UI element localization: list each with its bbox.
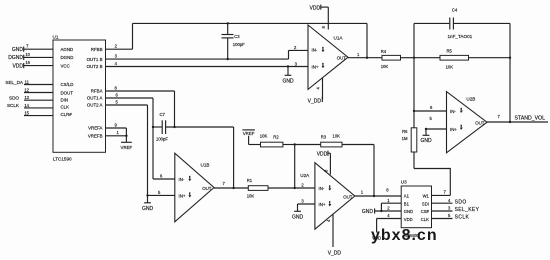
resistor R6 1M — [402, 128, 417, 169]
svg-text:VREF: VREF — [121, 145, 133, 150]
port DGND with wire pin 10 — [8, 52, 53, 61]
svg-text:R1: R1 — [247, 178, 253, 183]
wire U3 CLK pin 5 to SCLK — [432, 213, 470, 221]
svg-text:OUT1 B: OUT1 B — [87, 57, 103, 62]
ground at U2A IN+ — [292, 204, 304, 221]
svg-text:U3: U3 — [401, 180, 407, 185]
svg-text:IN+: IN+ — [312, 64, 319, 69]
svg-text:VREFA: VREFA — [88, 126, 102, 131]
wire U2B feedback right leg — [509, 23, 511, 123]
svg-text:11: 11 — [25, 80, 30, 85]
svg-text:R3: R3 — [321, 135, 327, 140]
op-amp U1B — [158, 153, 226, 222]
svg-text:OUT: OUT — [343, 195, 353, 200]
port SEL_DA with wire pin 11 — [5, 80, 53, 85]
svg-text:VCC: VCC — [61, 63, 70, 68]
port GND with wire pin 7 — [12, 44, 53, 53]
power V_DD at U2A pin 4 — [326, 215, 341, 257]
svg-text:SEL_DA: SEL_DA — [5, 80, 24, 85]
svg-text:SDI: SDI — [422, 201, 429, 206]
resistor R4 10K — [348, 49, 414, 69]
svg-text:OUT: OUT — [337, 56, 347, 61]
svg-text:VREF: VREF — [243, 131, 255, 136]
svg-text:15: 15 — [24, 111, 29, 116]
wire pin 3 OUT1B to U1A IN- — [106, 45, 309, 59]
svg-text:IN-: IN- — [319, 186, 325, 191]
svg-text:DGND: DGND — [8, 55, 23, 61]
ground at U1B IN+ — [142, 194, 154, 212]
op-amp U1A — [308, 25, 360, 89]
svg-text:IN+: IN+ — [319, 202, 326, 207]
wire top feedback net — [133, 23, 369, 59]
svg-text:GND: GND — [282, 78, 294, 84]
svg-text:DIN: DIN — [61, 98, 69, 103]
wire pin 6 OUT1A to U1B IN- — [106, 92, 175, 179]
port GND at U3 pin 2 — [362, 206, 401, 215]
power VDD at U1A pin 8 — [310, 5, 329, 30]
svg-text:1nF_TAO01: 1nF_TAO01 — [448, 34, 473, 39]
svg-text:OUT2 B: OUT2 B — [87, 64, 103, 69]
wire R2 node to U2A IN- — [294, 143, 296, 188]
svg-text:U2A: U2A — [300, 173, 310, 178]
svg-text:VREFB: VREFB — [88, 134, 103, 139]
wire C7 node to U1B output — [232, 127, 234, 189]
ground at U1A IN+ — [282, 65, 294, 84]
wire U2B IN+ — [426, 116, 447, 129]
svg-text:VDD: VDD — [317, 152, 328, 158]
svg-text:B1: B1 — [404, 201, 410, 206]
svg-text:GND: GND — [12, 47, 24, 53]
svg-text:10K: 10K — [446, 65, 454, 70]
svg-text:R4: R4 — [381, 49, 387, 54]
svg-text:1M: 1M — [402, 136, 408, 141]
op-amp U2B — [447, 92, 488, 153]
svg-text:CS#: CS# — [421, 209, 430, 214]
svg-text:R2: R2 — [273, 135, 279, 140]
wire pin 2 RFBB to top feedback — [106, 23, 133, 49]
svg-text:C4: C4 — [452, 7, 458, 12]
svg-text:GND: GND — [420, 138, 432, 144]
svg-text:U1: U1 — [53, 35, 59, 40]
svg-text:14: 14 — [24, 103, 29, 108]
svg-text:100pF: 100pF — [156, 137, 168, 142]
svg-text:U1A: U1A — [334, 36, 344, 41]
svg-text:R5: R5 — [447, 49, 453, 54]
wire U2A IN+ — [298, 203, 315, 205]
svg-text:R6: R6 — [402, 129, 408, 134]
svg-text:LTC1590: LTC1590 — [53, 157, 72, 162]
wire U2B IN- — [414, 105, 447, 111]
svg-text:DGND: DGND — [61, 55, 74, 60]
wire pin 4 OUT2B to U1A IN+ — [106, 61, 309, 67]
svg-text:SDO: SDO — [9, 95, 19, 100]
svg-text:VDD: VDD — [12, 63, 23, 69]
wire R6 to U3 W1 — [414, 169, 450, 196]
svg-text:OUT: OUT — [202, 186, 212, 191]
resistor R5 10K — [413, 49, 511, 70]
port VDD with wire pin 16 — [12, 60, 53, 69]
svg-text:RFBA: RFBA — [91, 89, 103, 94]
svg-text:U1B: U1B — [201, 163, 210, 168]
svg-text:STAND_VOL: STAND_VOL — [515, 116, 546, 122]
op-amp U2A — [300, 163, 355, 230]
wire U2B output STAND_VOL — [487, 114, 548, 122]
svg-text:AGND: AGND — [61, 47, 74, 52]
wire U2B inverting node vertical — [413, 23, 415, 127]
svg-text:IN-: IN- — [179, 177, 185, 182]
wire U3 B1 pin 1 — [380, 198, 401, 212]
svg-text:C7: C7 — [160, 112, 166, 117]
ground at U2B IN+ — [420, 128, 432, 144]
port SCLK with wire pin 14 — [7, 103, 53, 108]
svg-text:12: 12 — [24, 88, 29, 93]
svg-text:10K: 10K — [260, 134, 268, 139]
svg-text:SCLK: SCLK — [7, 103, 20, 108]
svg-text:SDO: SDO — [455, 200, 467, 206]
svg-text:V_DD: V_DD — [328, 250, 342, 256]
svg-text:DOUT: DOUT — [61, 90, 74, 95]
wire pin 8 RFBA — [106, 85, 175, 127]
wire U3 SDI pin 4 to SDO — [432, 198, 467, 206]
svg-text:16: 16 — [25, 60, 30, 65]
svg-text:VDD: VDD — [404, 217, 413, 222]
resistor R3 10K — [295, 133, 374, 147]
svg-text:GND: GND — [292, 215, 304, 221]
capacitor C7 100pF — [152, 112, 234, 142]
port SDO with wire pin 13 — [9, 95, 53, 100]
wire R3 to U2A output — [373, 145, 375, 198]
svg-text:10K: 10K — [333, 133, 341, 138]
IC U1 LTC1590 body — [53, 35, 106, 162]
svg-text:CS/LD: CS/LD — [61, 82, 74, 87]
svg-text:IN+: IN+ — [450, 127, 457, 132]
wire pin 12 — [24, 88, 53, 93]
svg-text:10K: 10K — [247, 194, 255, 199]
net VREF below U1 — [121, 142, 133, 150]
svg-text:13: 13 — [24, 95, 29, 100]
svg-text:OUT1 A: OUT1 A — [87, 96, 103, 101]
capacitor C4 1nF — [414, 7, 510, 39]
svg-text:OUT: OUT — [475, 121, 485, 126]
svg-text:SCLK: SCLK — [455, 215, 470, 221]
net VREF at R2 — [242, 130, 255, 145]
svg-text:10: 10 — [25, 52, 30, 57]
svg-text:V_DD: V_DD — [308, 98, 322, 104]
power V_DD at U1A pin 4 — [308, 78, 323, 105]
wire U2A output to U3 A1 — [355, 188, 401, 197]
IC U3 AD8400 body — [401, 180, 432, 238]
wire pin 9 VREFA — [106, 122, 127, 142]
svg-text:CLK: CLK — [421, 217, 429, 222]
svg-text:U2B: U2B — [466, 97, 475, 102]
resistor R1 10K — [214, 178, 315, 199]
svg-text:A1: A1 — [404, 194, 410, 199]
wire U3 CS# pin 3 to SEL_KEY — [432, 206, 480, 214]
wire pin 15 — [24, 111, 53, 116]
wire U3 W1 pin 7 — [432, 190, 451, 196]
capacitor C3 100pF — [222, 22, 246, 60]
svg-text:IN-: IN- — [450, 109, 456, 114]
svg-text:W1: W1 — [423, 194, 430, 199]
svg-text:IN-: IN- — [312, 48, 318, 53]
svg-text:GND: GND — [404, 209, 413, 214]
svg-text:ybx8.cn: ybx8.cn — [371, 227, 438, 244]
svg-text:CLR#: CLR# — [61, 112, 73, 117]
svg-text:SEL_KEY: SEL_KEY — [455, 207, 480, 213]
svg-text:CLK: CLK — [61, 105, 70, 110]
wire pin 1 VREFB — [106, 130, 128, 137]
svg-text:IN+: IN+ — [179, 193, 186, 198]
svg-text:GND: GND — [142, 206, 154, 212]
wire pin 5 OUT2A to U1B IN+ — [106, 99, 175, 195]
power VDD at U3 pin 4 — [372, 213, 401, 240]
svg-text:10K: 10K — [381, 64, 389, 69]
svg-text:100pF: 100pF — [233, 42, 245, 47]
svg-text:VDD: VDD — [310, 5, 321, 11]
svg-text:RFBB: RFBB — [91, 47, 103, 52]
watermark ybx8.cn — [371, 227, 438, 244]
svg-text:GND: GND — [362, 209, 374, 215]
resistor R2 10K — [249, 134, 295, 147]
svg-text:OUT2 A: OUT2 A — [87, 103, 103, 108]
svg-text:C3: C3 — [234, 34, 240, 39]
power VDD at U2A pin 8 — [317, 151, 331, 175]
